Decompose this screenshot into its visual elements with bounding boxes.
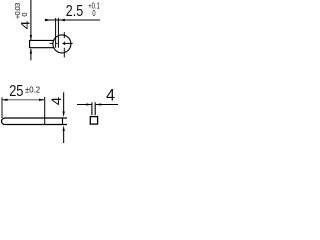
dimension text 25 ±0.2: [9, 83, 40, 101]
svg-text:25: 25: [9, 83, 23, 101]
strip top edge: [29, 39, 54, 41]
dimension line 25 with outward-pointing arrows: [2, 99, 45, 101]
dimension line (4) lower segment with up arrow: [30, 48, 32, 60]
svg-text:4: 4: [18, 21, 32, 30]
center dot: [64, 43, 66, 45]
contact circle: [53, 35, 71, 53]
tab right edge: [57, 18, 59, 48]
dimension line (4) lower segment with up arrow: [63, 125, 65, 143]
dimension line (4) upper segment with down arrow: [63, 92, 65, 117]
strip outline (rounded left end): [2, 118, 67, 125]
tab end-view right edge: [94, 102, 96, 115]
horizontal centerline: [50, 42, 73, 44]
strip left end edge: [29, 40, 31, 47]
dimension text 4 +0.03/0 (rotated): [13, 3, 32, 30]
tab end-view left edge: [91, 102, 93, 115]
extension line right / step edge: [44, 97, 46, 125]
strip cross-section square: [90, 117, 97, 125]
dimension text 2.5 +0.1/0: [66, 2, 100, 20]
dimension line 4 with inward arrows: [77, 103, 118, 105]
tab left edge: [55, 18, 57, 48]
right end edge: [62, 118, 64, 125]
svg-text:2.5: 2.5: [66, 2, 83, 20]
svg-text:4: 4: [50, 97, 65, 105]
svg-text:4: 4: [106, 87, 115, 105]
dimension line (4) upper segment with down arrow: [30, 0, 32, 41]
svg-text:±0.2: ±0.2: [25, 85, 41, 94]
vertical centerline: [63, 32, 65, 57]
svg-text:0: 0: [92, 10, 95, 18]
strip bottom edge: [29, 47, 55, 49]
dimension line 2.5 with inward arrows: [45, 19, 100, 22]
svg-text:0: 0: [20, 12, 29, 16]
extension line left: [1, 97, 3, 118]
